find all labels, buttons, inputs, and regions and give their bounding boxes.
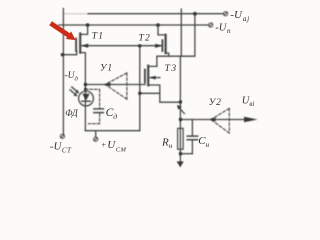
svg-text:T3: T3: [165, 64, 178, 74]
svg-text:У1: У1: [100, 64, 113, 74]
svg-text:T2: T2: [139, 33, 151, 43]
svg-text:T1: T1: [92, 32, 104, 42]
svg-text:У2: У2: [209, 98, 222, 108]
svg-text:ФД: ФД: [65, 108, 79, 118]
svg-text:+: +: [101, 141, 106, 150]
